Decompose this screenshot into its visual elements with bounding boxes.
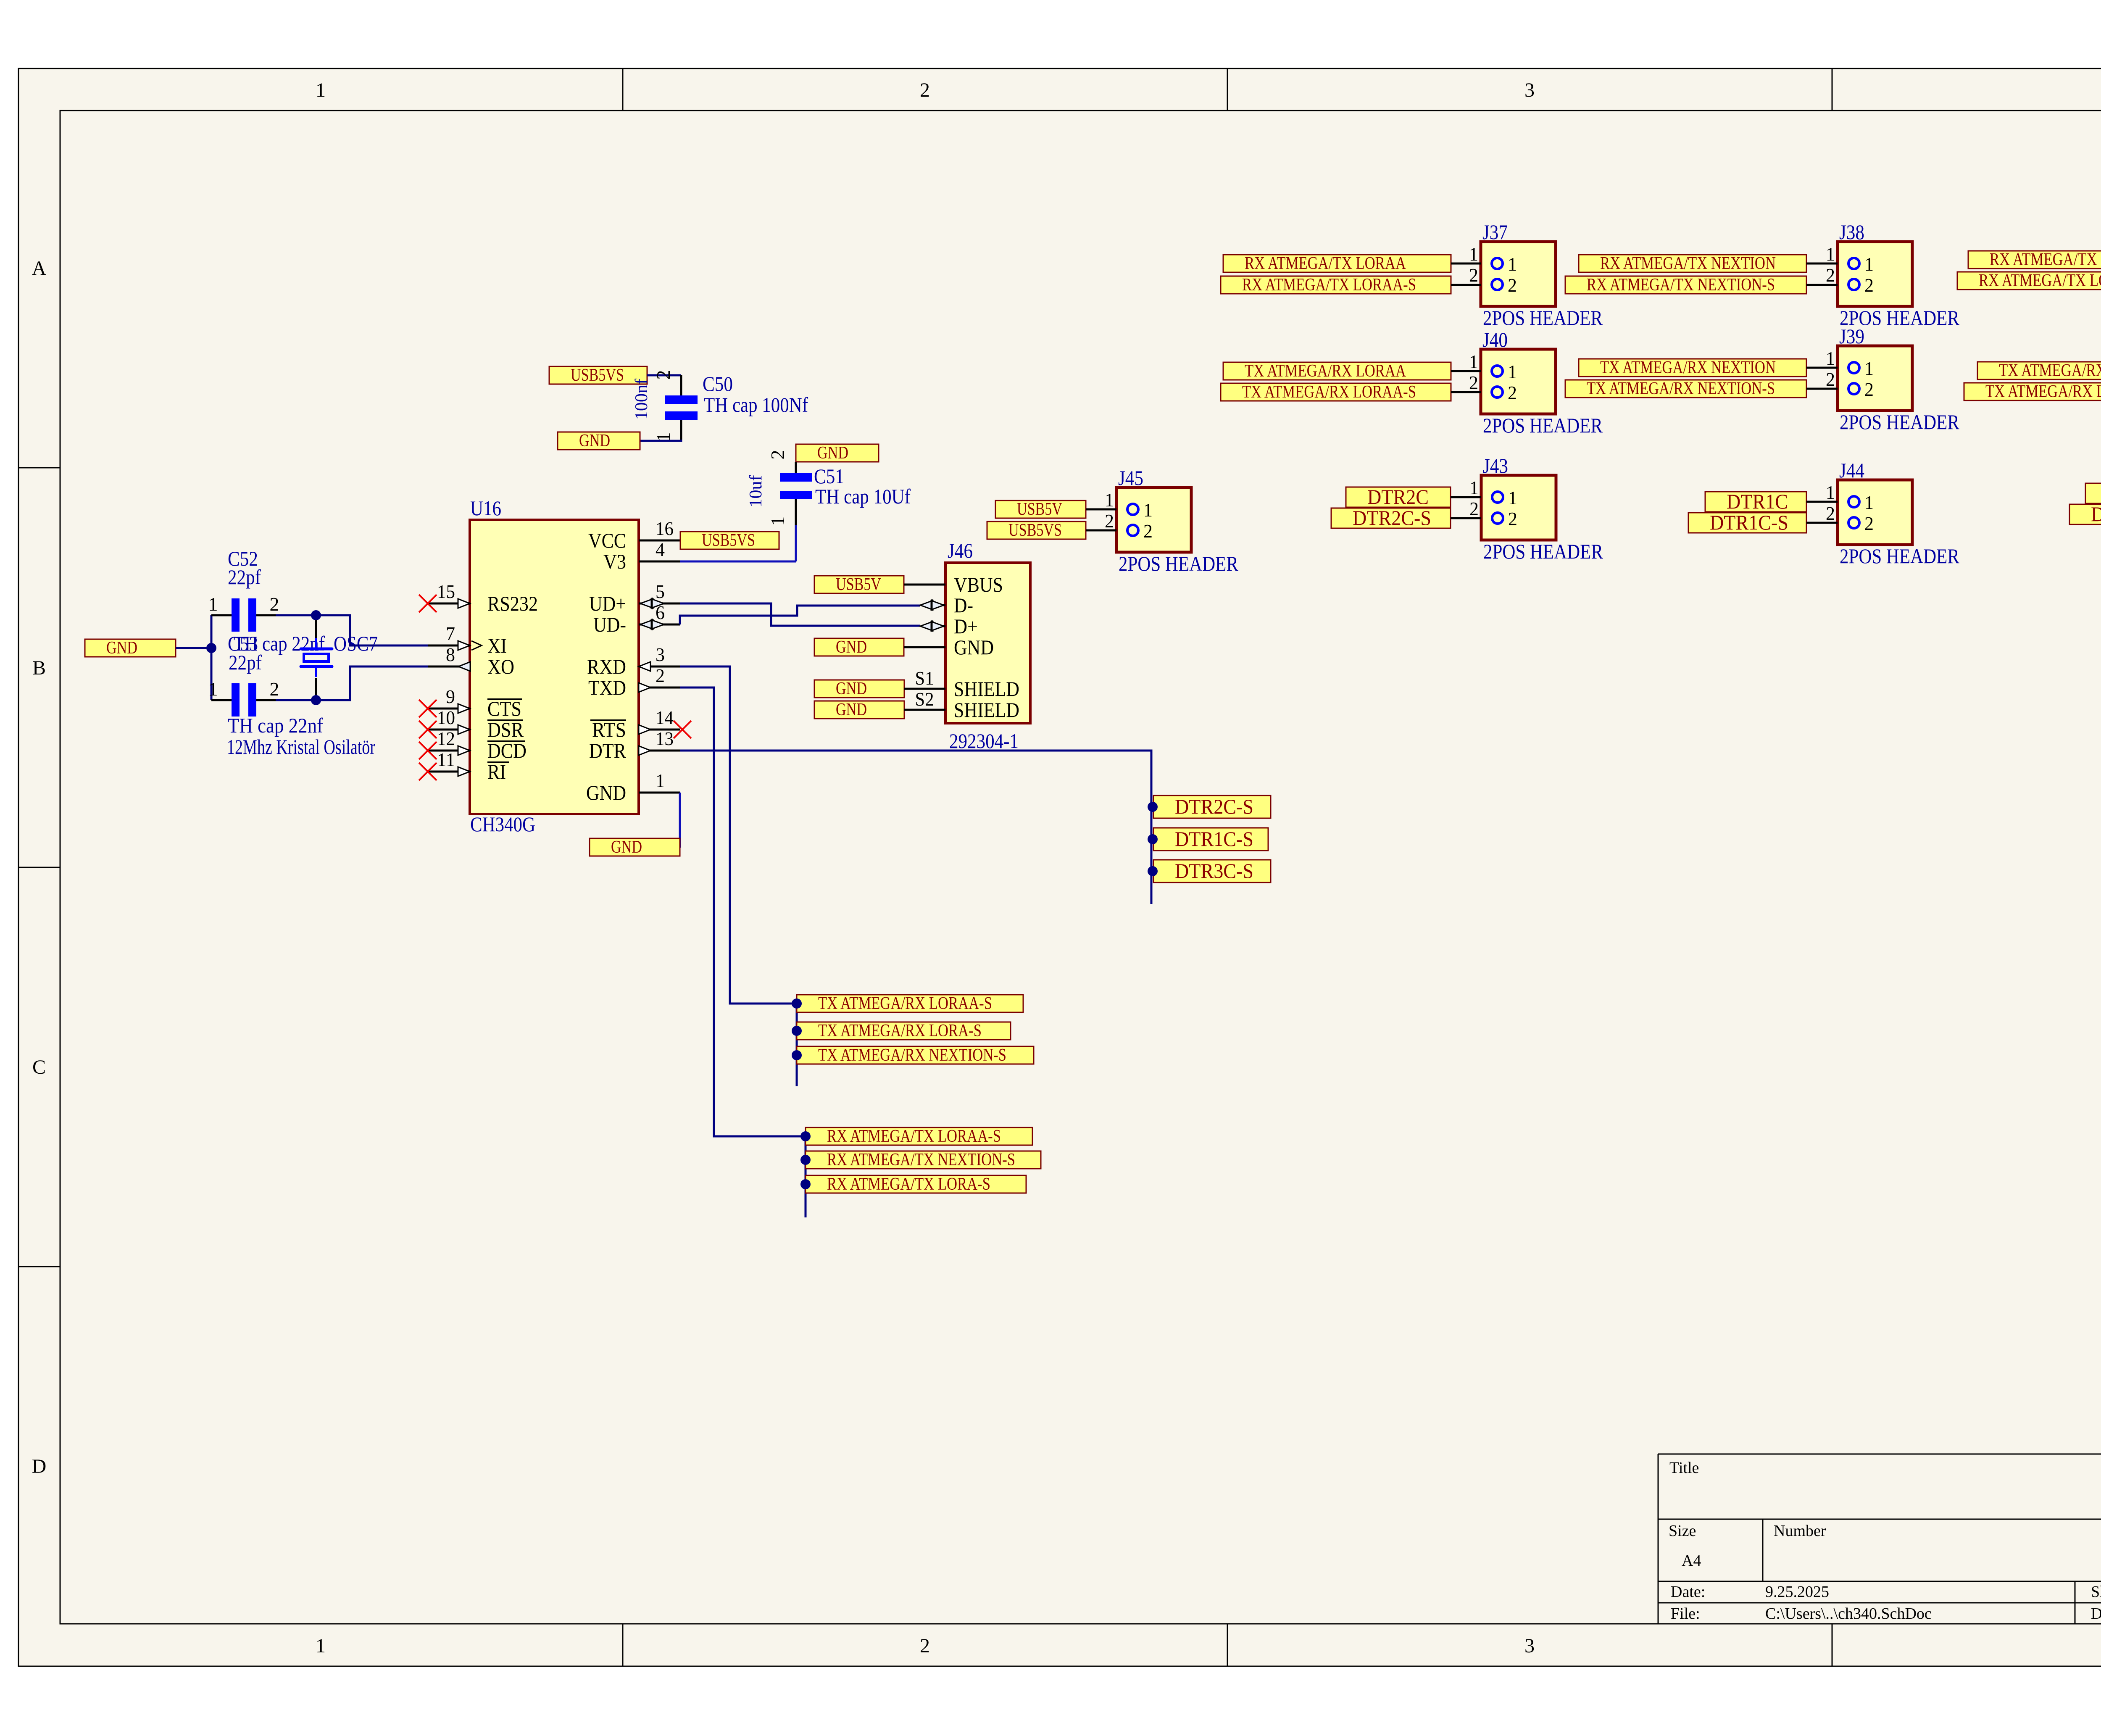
- svg-text:GND: GND: [836, 700, 867, 719]
- svg-text:292304-1: 292304-1: [949, 729, 1019, 753]
- svg-text:B: B: [32, 657, 46, 679]
- svg-text:TX ATMEGA/RX LORAA-S: TX ATMEGA/RX LORAA-S: [1242, 382, 1416, 402]
- svg-text:OSC7: OSC7: [334, 632, 378, 655]
- svg-text:2: 2: [1826, 503, 1835, 524]
- svg-text:2: 2: [1143, 520, 1153, 542]
- svg-text:J39: J39: [1839, 324, 1864, 348]
- net label DTR1C-S: [1688, 513, 1806, 533]
- net label TX ATMEGA/RX NEXTION-S: [1565, 380, 1806, 398]
- svg-text:TXD: TXD: [588, 676, 626, 699]
- svg-text:RXD: RXD: [587, 655, 626, 678]
- svg-text:DTR2C-S: DTR2C-S: [1175, 795, 1253, 818]
- power port GND (S2): [814, 701, 904, 719]
- connector J44 2POS HEADER: [1826, 458, 1960, 568]
- junction TX ATMEGA/RX LORAA-S: [792, 998, 802, 1009]
- capacitor C51: [746, 450, 911, 526]
- wire C51 to V3 net: [795, 525, 797, 561]
- svg-text:VBUS: VBUS: [954, 573, 1003, 596]
- connector J40 2POS HEADER: [1469, 328, 1603, 437]
- svg-text:22pf: 22pf: [228, 565, 261, 589]
- power port GND (S1): [814, 680, 904, 698]
- net label TX ATMEGA/RX LORA-S: [1964, 383, 2101, 400]
- svg-text:1: 1: [767, 516, 788, 526]
- svg-text:9.25.2025: 9.25.2025: [1765, 1583, 1829, 1601]
- svg-text:DTR2C-S: DTR2C-S: [1353, 506, 1431, 529]
- wire DTR2C: [1451, 496, 1481, 498]
- wire VBUS: [904, 584, 945, 586]
- svg-text:2: 2: [1864, 274, 1874, 296]
- svg-text:USB5V: USB5V: [836, 575, 881, 594]
- wire U16 GND: [679, 793, 681, 848]
- pin 14 RTS: [590, 707, 691, 741]
- svg-text:RS232: RS232: [487, 592, 538, 615]
- power port GND (U16): [590, 838, 680, 856]
- svg-text:CH340G: CH340G: [470, 812, 535, 836]
- pin 9 CTS: [419, 686, 522, 720]
- svg-text:SHIELD: SHIELD: [954, 698, 1019, 722]
- svg-text:TX ATMEGA/RX LORA-S: TX ATMEGA/RX LORA-S: [818, 1021, 982, 1041]
- svg-text:Drawn By:: Drawn By:: [2091, 1605, 2101, 1623]
- wire S1: [904, 667, 945, 689]
- svg-text:DCD: DCD: [487, 739, 527, 762]
- net label RX ATMEGA/TX LORA: [1968, 251, 2101, 269]
- svg-text:U16: U16: [470, 496, 501, 520]
- wire C50 to GND: [640, 440, 681, 441]
- net label RX ATMEGA/TX LORAA-S (tap): [806, 1127, 1032, 1145]
- svg-text:CTS: CTS: [487, 697, 521, 720]
- svg-text:1: 1: [1469, 351, 1478, 372]
- svg-text:2: 2: [1864, 513, 1874, 534]
- svg-text:J40: J40: [1482, 328, 1508, 351]
- svg-text:J45: J45: [1118, 466, 1143, 490]
- net label TX ATMEGA/RX LORAA-S (tap): [797, 995, 1023, 1012]
- svg-text:DTR1C: DTR1C: [1727, 490, 1788, 513]
- wire DTR1C: [1806, 501, 1838, 503]
- svg-text:C50: C50: [703, 372, 733, 395]
- svg-text:DTR1C-S: DTR1C-S: [1175, 827, 1253, 851]
- svg-text:TX ATMEGA/RX LORAA-S: TX ATMEGA/RX LORAA-S: [818, 994, 992, 1013]
- junction RX ATMEGA/TX LORAA-S: [800, 1131, 811, 1141]
- svg-text:2: 2: [1508, 508, 1517, 529]
- svg-text:1: 1: [1105, 489, 1114, 511]
- svg-text:GND: GND: [817, 443, 848, 463]
- net label DTR1C-S (tap): [1153, 828, 1268, 851]
- svg-text:S2: S2: [915, 688, 934, 710]
- connector J38 2POS HEADER: [1826, 220, 1960, 329]
- svg-text:J44: J44: [1839, 458, 1864, 482]
- power port USB5VS (VCC): [680, 532, 779, 549]
- svg-text:TH cap 22nf: TH cap 22nf: [228, 714, 323, 737]
- svg-text:2: 2: [1469, 372, 1478, 393]
- wire TX ATMEGA/RX LORAA: [1451, 370, 1481, 372]
- svg-text:12: 12: [437, 728, 455, 749]
- pin 3 RXD: [587, 644, 680, 678]
- capacitor C53: [208, 632, 376, 759]
- svg-text:SHIELD: SHIELD: [954, 677, 1019, 701]
- svg-text:RX ATMEGA/TX LORA-S: RX ATMEGA/TX LORA-S: [1979, 271, 2101, 290]
- svg-text:Sheet: Sheet: [2091, 1583, 2101, 1601]
- svg-text:2: 2: [1826, 264, 1835, 286]
- svg-text:2: 2: [920, 1635, 930, 1657]
- wire RXD net: [680, 666, 797, 1086]
- svg-text:TX ATMEGA/RX LORA-S: TX ATMEGA/RX LORA-S: [1985, 382, 2101, 401]
- wire RX ATMEGA/TX NEXTION: [1806, 263, 1838, 265]
- svg-text:C: C: [32, 1056, 46, 1078]
- power port USB5VS (C50): [549, 366, 647, 384]
- svg-text:7: 7: [446, 623, 455, 644]
- wire USB5VS: [1086, 529, 1116, 532]
- svg-text:2: 2: [1826, 369, 1835, 390]
- svg-text:2: 2: [656, 665, 665, 686]
- svg-text:2: 2: [920, 79, 930, 101]
- connector J39 2POS HEADER: [1826, 324, 1960, 434]
- wire left rail: [211, 615, 213, 700]
- svg-text:2: 2: [1508, 382, 1517, 403]
- svg-text:1: 1: [1469, 243, 1478, 265]
- svg-text:8: 8: [446, 644, 455, 665]
- pin 10 DSR: [419, 707, 524, 741]
- svg-text:USB5VS: USB5VS: [1008, 521, 1062, 540]
- svg-text:TX ATMEGA/RX NEXTION-S: TX ATMEGA/RX NEXTION-S: [1587, 379, 1775, 398]
- svg-text:2: 2: [653, 370, 674, 380]
- wire DTR2C-S: [1451, 517, 1481, 519]
- pin 12 DCD: [419, 728, 527, 762]
- svg-text:TX ATMEGA/RX LORA: TX ATMEGA/RX LORA: [1999, 361, 2101, 380]
- svg-text:3: 3: [1524, 79, 1535, 101]
- wire UD- to D-: [680, 606, 920, 624]
- title block: [1658, 1454, 2101, 1624]
- wire RX ATMEGA/TX LORAA: [1451, 263, 1481, 265]
- pin D- arrow: [920, 599, 945, 611]
- wire TX ATMEGA/RX NEXTION: [1806, 367, 1838, 369]
- svg-text:GND: GND: [586, 781, 626, 804]
- svg-text:S1: S1: [915, 667, 934, 689]
- net label DTR1C: [1705, 492, 1806, 512]
- junction DTR3C-S: [1148, 866, 1158, 876]
- svg-text:2: 2: [1508, 274, 1517, 296]
- junction TX ATMEGA/RX LORA-S: [792, 1026, 802, 1036]
- svg-text:1: 1: [1508, 253, 1517, 275]
- svg-text:12Mhz Kristal Osilatör: 12Mhz Kristal Osilatör: [227, 735, 375, 759]
- connector J43 2POS HEADER: [1469, 454, 1603, 563]
- svg-text:1: 1: [1508, 361, 1517, 382]
- capacitor C50: [632, 370, 808, 442]
- net label DTR2C: [1346, 487, 1451, 507]
- svg-text:USB5VS: USB5VS: [702, 531, 755, 550]
- svg-text:UD+: UD+: [589, 592, 626, 615]
- svg-text:1: 1: [1826, 348, 1835, 369]
- net label DTR2C-S: [1331, 508, 1451, 528]
- svg-text:TH cap 100Nf: TH cap 100Nf: [704, 393, 808, 416]
- net label TX ATMEGA/RX LORA: [1977, 362, 2101, 379]
- svg-text:2POS HEADER: 2POS HEADER: [1119, 552, 1239, 575]
- svg-text:D+: D+: [954, 614, 978, 638]
- power port GND (C51): [796, 444, 879, 462]
- svg-text:1: 1: [1826, 482, 1835, 503]
- svg-text:1: 1: [656, 770, 665, 791]
- svg-text:1: 1: [1469, 477, 1479, 498]
- net label DTR3C-S (tap): [1153, 860, 1271, 882]
- wire TX ATMEGA/RX NEXTION-S: [1806, 388, 1838, 390]
- junction rail-GND: [206, 643, 216, 653]
- svg-text:Date:: Date:: [1671, 1583, 1705, 1601]
- wire USB5V: [1086, 508, 1116, 511]
- pin 4 V3: [603, 539, 680, 573]
- net label DTR3C: [2085, 483, 2101, 503]
- svg-text:2: 2: [1469, 264, 1478, 286]
- pin 7 XI: [428, 623, 507, 657]
- power port USB5V (J46): [814, 576, 904, 593]
- svg-text:RTS: RTS: [592, 718, 626, 741]
- svg-text:XO: XO: [487, 655, 514, 678]
- power port GND (left): [85, 639, 176, 657]
- svg-text:TX ATMEGA/RX NEXTION-S: TX ATMEGA/RX NEXTION-S: [818, 1046, 1006, 1065]
- svg-text:1: 1: [1826, 243, 1835, 265]
- pin 8 XO: [428, 644, 514, 678]
- pin 6 UD-: [593, 602, 680, 636]
- pin 2 TXD: [588, 665, 680, 699]
- svg-text:D-: D-: [954, 593, 973, 617]
- svg-text:A: A: [32, 257, 47, 279]
- wire DTR1C-S: [1806, 522, 1838, 524]
- svg-text:2POS HEADER: 2POS HEADER: [1483, 306, 1603, 329]
- net label USB5V: [995, 501, 1086, 518]
- pin 1 GND: [586, 770, 680, 804]
- svg-text:TX ATMEGA/RX LORAA: TX ATMEGA/RX LORAA: [1245, 361, 1406, 381]
- svg-text:2: 2: [767, 450, 788, 460]
- svg-text:GND: GND: [611, 838, 642, 857]
- svg-text:1: 1: [1864, 492, 1874, 513]
- junction RX ATMEGA/TX LORA-S: [800, 1179, 811, 1189]
- svg-text:RX ATMEGA/TX NEXTION-S: RX ATMEGA/TX NEXTION-S: [1587, 275, 1775, 295]
- svg-text:J37: J37: [1482, 220, 1508, 244]
- svg-text:16: 16: [656, 518, 674, 539]
- svg-text:USB5VS: USB5VS: [571, 366, 624, 385]
- svg-text:4: 4: [656, 539, 665, 560]
- wire USB5VS to C50: [647, 374, 681, 377]
- svg-text:100nf: 100nf: [632, 379, 651, 420]
- connector J46 292304-1: [945, 539, 1030, 753]
- connector J45 2POS HEADER: [1105, 466, 1239, 575]
- net label TX ATMEGA/RX LORAA: [1223, 362, 1451, 380]
- svg-text:10: 10: [437, 707, 455, 728]
- svg-text:1: 1: [208, 593, 218, 615]
- svg-text:RI: RI: [487, 760, 506, 783]
- svg-text:3: 3: [656, 644, 665, 665]
- wire crystal top node to XI: [276, 615, 428, 645]
- pin 5 UD+: [589, 581, 680, 615]
- svg-text:2: 2: [270, 678, 279, 700]
- svg-text:GND: GND: [836, 637, 867, 657]
- net label RX ATMEGA/TX LORA-S: [1957, 272, 2101, 290]
- junction DTR1C-S: [1148, 834, 1158, 844]
- svg-text:D: D: [32, 1455, 47, 1478]
- svg-text:Size: Size: [1669, 1522, 1696, 1540]
- svg-text:1: 1: [316, 79, 326, 101]
- svg-text:Title: Title: [1669, 1459, 1699, 1477]
- svg-text:1: 1: [1864, 253, 1874, 275]
- svg-text:13: 13: [656, 728, 674, 749]
- svg-text:2: 2: [1469, 498, 1479, 519]
- svg-text:1: 1: [208, 678, 218, 700]
- wire UD+ to D+: [680, 603, 920, 626]
- svg-text:DTR3C-S: DTR3C-S: [1175, 859, 1253, 882]
- svg-text:2: 2: [1864, 379, 1874, 400]
- net label TX ATMEGA/RX LORA-S (tap): [797, 1022, 1011, 1040]
- svg-text:2POS HEADER: 2POS HEADER: [1483, 540, 1603, 563]
- svg-text:A4: A4: [1682, 1552, 1701, 1570]
- power port GND (J46 pin4): [814, 638, 904, 656]
- svg-text:DTR: DTR: [589, 739, 627, 762]
- junction crystal top: [311, 610, 321, 620]
- svg-text:VCC: VCC: [588, 529, 626, 552]
- svg-text:2: 2: [270, 593, 279, 615]
- wire DTR net: [680, 751, 1151, 904]
- svg-text:15: 15: [437, 581, 455, 602]
- junction crystal bottom: [311, 695, 321, 705]
- svg-text:1: 1: [316, 1635, 326, 1657]
- IC U16 CH340G: [470, 496, 639, 836]
- svg-text:3: 3: [1524, 1635, 1535, 1657]
- connector J37 2POS HEADER: [1469, 220, 1603, 329]
- svg-text:RX ATMEGA/TX NEXTION: RX ATMEGA/TX NEXTION: [1600, 254, 1776, 273]
- svg-text:UD-: UD-: [593, 613, 626, 636]
- crystal OSC7: [301, 615, 378, 700]
- net label RX ATMEGA/TX LORA-S (tap): [806, 1175, 1026, 1193]
- pin 15 RS232: [419, 581, 538, 615]
- svg-text:DTR1C-S: DTR1C-S: [1710, 511, 1788, 534]
- net label TX ATMEGA/RX NEXTION-S (tap): [797, 1046, 1034, 1064]
- svg-text:10uf: 10uf: [746, 475, 766, 508]
- svg-text:GND: GND: [579, 431, 610, 450]
- pin 11 RI: [419, 749, 509, 783]
- net label DTR3C-S: [2069, 504, 2101, 524]
- svg-text:DTR3C-S: DTR3C-S: [2091, 502, 2101, 526]
- svg-text:14: 14: [656, 707, 674, 728]
- wire RX ATMEGA/TX LORAA-S: [1451, 284, 1481, 286]
- wire crystal bottom node to XO: [276, 666, 428, 700]
- power port GND (C50): [558, 432, 640, 450]
- svg-text:J38: J38: [1839, 220, 1864, 244]
- svg-text:2: 2: [1105, 510, 1114, 532]
- net label RX ATMEGA/TX NEXTION-S (tap): [806, 1151, 1041, 1169]
- junction TX ATMEGA/RX NEXTION-S: [792, 1050, 802, 1060]
- net label DTR2C-S (tap): [1153, 796, 1271, 818]
- wire GND to rail: [176, 647, 211, 649]
- svg-text:XI: XI: [487, 634, 507, 657]
- svg-text:C:\Users\..\ch340.SchDoc: C:\Users\..\ch340.SchDoc: [1765, 1605, 1932, 1623]
- svg-text:RX ATMEGA/TX NEXTION-S: RX ATMEGA/TX NEXTION-S: [827, 1150, 1015, 1170]
- wire RX ATMEGA/TX NEXTION-S: [1806, 284, 1838, 286]
- wire V3 net: [680, 561, 796, 563]
- svg-text:RX ATMEGA/TX LORAA-S: RX ATMEGA/TX LORAA-S: [1242, 275, 1416, 295]
- svg-text:6: 6: [656, 602, 665, 623]
- wire S2: [904, 688, 945, 710]
- svg-text:RX ATMEGA/TX LORAA: RX ATMEGA/TX LORAA: [1245, 254, 1406, 273]
- net label TX ATMEGA/RX NEXTION: [1579, 359, 1806, 377]
- wire TXD net: [680, 688, 806, 1217]
- svg-text:RX ATMEGA/TX LORAA-S: RX ATMEGA/TX LORAA-S: [827, 1127, 1001, 1146]
- svg-text:2POS HEADER: 2POS HEADER: [1483, 414, 1603, 437]
- pin 16 VCC: [588, 518, 680, 552]
- svg-text:RX ATMEGA/TX LORA-S: RX ATMEGA/TX LORA-S: [827, 1175, 990, 1194]
- svg-text:11: 11: [437, 749, 455, 770]
- svg-text:1: 1: [1143, 499, 1153, 521]
- junction DTR2C-S: [1148, 802, 1158, 812]
- capacitor C52: [208, 547, 279, 632]
- wire J46 GND: [904, 646, 945, 648]
- svg-text:RX ATMEGA/TX LORA: RX ATMEGA/TX LORA: [1990, 250, 2101, 269]
- svg-text:2POS HEADER: 2POS HEADER: [1840, 410, 1960, 434]
- net label RX ATMEGA/TX LORAA-S: [1221, 276, 1451, 294]
- net label RX ATMEGA/TX NEXTION: [1579, 255, 1806, 272]
- pin D+ arrow: [920, 620, 945, 632]
- svg-text:22pf: 22pf: [229, 651, 262, 674]
- net label USB5VS: [987, 522, 1086, 539]
- svg-text:TX ATMEGA/RX NEXTION: TX ATMEGA/RX NEXTION: [1600, 358, 1776, 377]
- wire TX ATMEGA/RX LORAA-S: [1451, 391, 1481, 393]
- svg-text:5: 5: [656, 581, 665, 602]
- svg-text:TH cap 10Uf: TH cap 10Uf: [815, 485, 911, 508]
- svg-text:V3: V3: [603, 550, 626, 573]
- svg-text:1: 1: [1864, 358, 1874, 379]
- svg-text:2POS HEADER: 2POS HEADER: [1840, 544, 1960, 568]
- net label RX ATMEGA/TX LORAA: [1223, 255, 1451, 272]
- junction RX ATMEGA/TX NEXTION-S: [800, 1155, 811, 1165]
- pin 13 DTR: [589, 728, 680, 762]
- svg-text:GND: GND: [954, 635, 994, 659]
- svg-text:GND: GND: [836, 679, 867, 698]
- svg-text:J43: J43: [1483, 454, 1508, 477]
- net label TX ATMEGA/RX LORAA-S: [1221, 383, 1451, 401]
- svg-text:File:: File:: [1671, 1605, 1700, 1623]
- svg-text:Number: Number: [1774, 1522, 1826, 1540]
- svg-text:DSR: DSR: [487, 718, 524, 741]
- svg-text:USB5V: USB5V: [1017, 500, 1062, 519]
- svg-text:DTR2C: DTR2C: [1367, 485, 1429, 508]
- svg-text:1: 1: [1508, 487, 1517, 508]
- svg-text:GND: GND: [106, 638, 137, 658]
- svg-text:9: 9: [446, 686, 455, 707]
- svg-text:J46: J46: [948, 539, 973, 562]
- net label RX ATMEGA/TX NEXTION-S: [1565, 276, 1806, 294]
